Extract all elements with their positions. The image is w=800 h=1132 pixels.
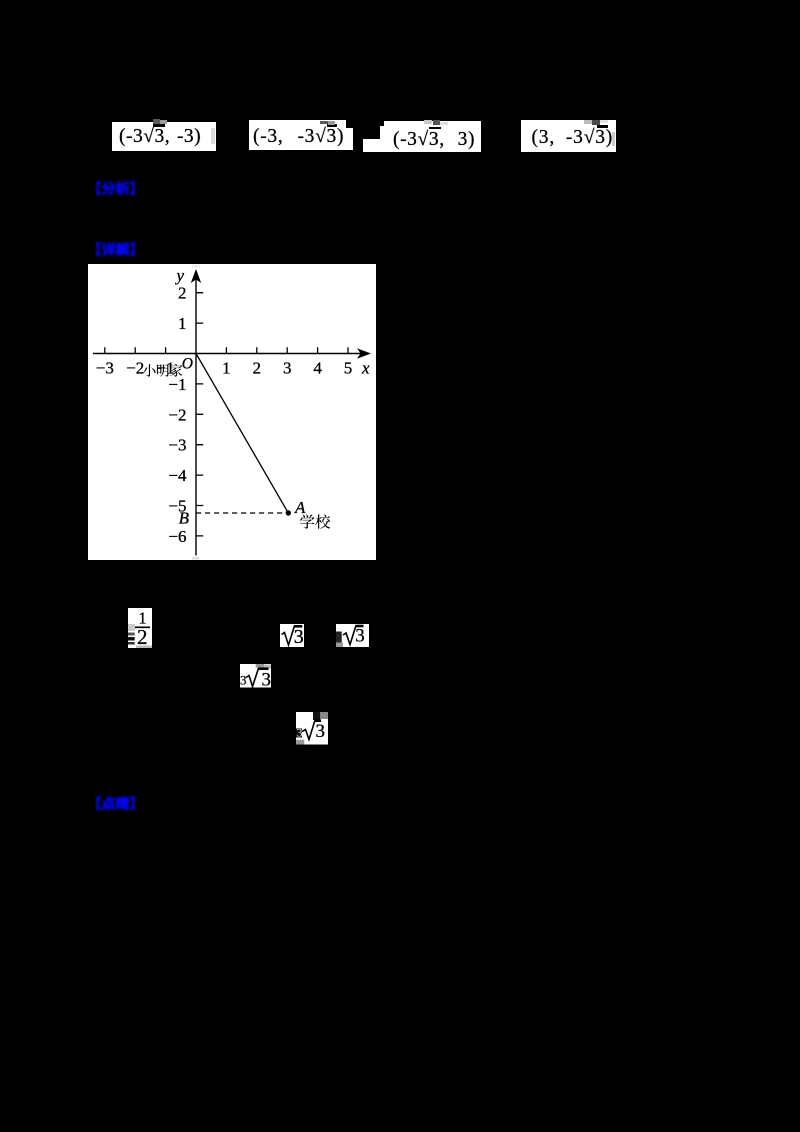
svg-text:−2: −2 <box>168 405 186 424</box>
coordinate-plane figure box <box>88 264 376 560</box>
y-axis arrowhead <box>191 269 201 283</box>
svg-text:2: 2 <box>137 625 148 648</box>
svg-text:−6: −6 <box>168 527 186 546</box>
svg-text:3: 3 <box>355 626 365 647</box>
3·sqrt(3) fragment D <box>296 712 328 745</box>
svg-text:3: 3 <box>283 359 292 378</box>
blue label 【分析】 <box>87 177 149 201</box>
sqrt(3) fragment A <box>280 624 304 647</box>
blue label 【点睛】 <box>87 792 149 816</box>
fraction one-half box <box>128 608 152 648</box>
svg-text:3: 3 <box>294 626 304 647</box>
svg-text:y: y <box>174 266 184 285</box>
y-axis <box>195 276 197 556</box>
point A dot <box>286 510 291 515</box>
svg-text:O: O <box>182 356 193 373</box>
y-axis tick marks <box>196 293 203 536</box>
svg-text:3: 3 <box>297 726 303 740</box>
box2 lower-right extension <box>345 128 353 150</box>
dashed segment B to A <box>196 512 288 514</box>
svg-text:−3: −3 <box>168 436 186 455</box>
answer box 3 <box>384 121 481 152</box>
blue label 【详解】 <box>87 238 149 262</box>
svg-text:5: 5 <box>344 359 353 378</box>
svg-text:−1: −1 <box>168 375 186 394</box>
gray sliver in box4 right edge <box>612 132 615 146</box>
label 学校 (school) <box>300 514 314 528</box>
svg-text:B: B <box>179 509 190 528</box>
faint gray mark above y-arrow <box>192 265 200 269</box>
3·sqrt(3) fragment C <box>240 664 271 688</box>
label 小明家 (Xiaoming home) <box>143 364 156 377</box>
svg-text:3: 3 <box>262 670 272 688</box>
x-axis tick marks <box>105 347 348 353</box>
gray compression marks above radicals <box>153 119 161 124</box>
gray sliver in box1 right edge <box>211 128 215 144</box>
faint gray mark below y-axis bottom <box>192 557 199 560</box>
answer box 2 <box>249 120 346 150</box>
x-axis arrowhead <box>357 348 371 358</box>
svg-text:x: x <box>361 359 370 378</box>
3·sqrt(3) fragment B <box>336 624 369 647</box>
answer box 4 <box>521 120 616 152</box>
svg-text:4: 4 <box>313 359 322 378</box>
segment from origin O to point A <box>196 354 288 514</box>
svg-text:−3: −3 <box>96 359 114 378</box>
svg-text:2: 2 <box>253 359 261 378</box>
svg-text:1: 1 <box>178 314 187 333</box>
answer box 1 <box>112 122 216 152</box>
svg-text:3: 3 <box>240 673 247 688</box>
radical overbars in answer boxes <box>153 124 165 127</box>
svg-text:−2: −2 <box>126 359 144 378</box>
svg-text:2: 2 <box>178 284 187 303</box>
svg-text:A: A <box>294 498 306 517</box>
svg-text:−4: −4 <box>168 466 187 485</box>
white blob between box2 and box3 <box>363 139 384 153</box>
svg-text:1: 1 <box>222 359 231 378</box>
x-axis <box>93 353 364 355</box>
svg-text:3: 3 <box>316 721 326 742</box>
